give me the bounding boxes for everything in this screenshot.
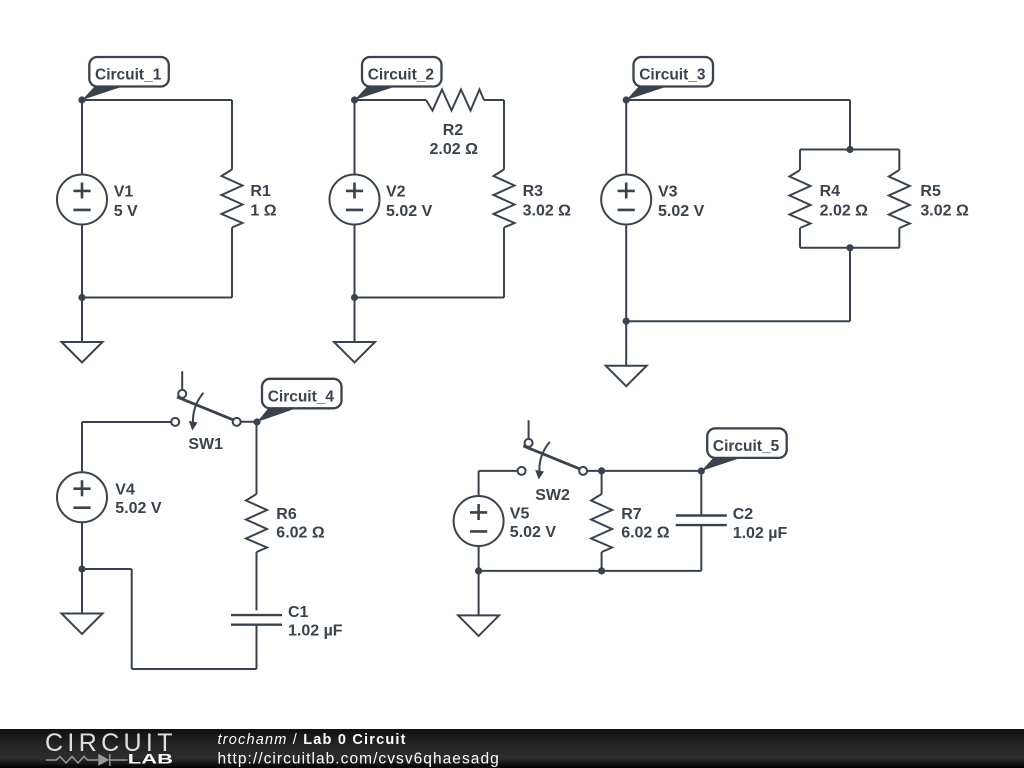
svg-text:V1: V1 bbox=[114, 184, 134, 201]
svg-text:5 V: 5 V bbox=[114, 203, 138, 220]
svg-text:R1: R1 bbox=[250, 183, 271, 200]
svg-text:R6: R6 bbox=[276, 506, 297, 523]
svg-text:3.02 Ω: 3.02 Ω bbox=[920, 203, 969, 220]
svg-text:Circuit_4: Circuit_4 bbox=[268, 388, 335, 405]
svg-text:R2: R2 bbox=[443, 122, 464, 139]
svg-text:Circuit_5: Circuit_5 bbox=[713, 438, 780, 455]
svg-text:2.02 Ω: 2.02 Ω bbox=[820, 203, 869, 220]
svg-text:trochanm / Lab 0 Circuit: trochanm / Lab 0 Circuit bbox=[218, 732, 407, 748]
svg-text:R5: R5 bbox=[920, 183, 941, 200]
svg-text:http://circuitlab.com/cvsv6qha: http://circuitlab.com/cvsv6qhaesadg bbox=[218, 751, 500, 768]
svg-text:R3: R3 bbox=[523, 183, 544, 200]
svg-text:R4: R4 bbox=[820, 183, 841, 200]
svg-text:6.02 Ω: 6.02 Ω bbox=[276, 525, 325, 542]
svg-text:V2: V2 bbox=[386, 184, 406, 201]
svg-text:5.02 V: 5.02 V bbox=[386, 203, 433, 220]
svg-text:1.02 µF: 1.02 µF bbox=[733, 525, 788, 542]
svg-text:6.02 Ω: 6.02 Ω bbox=[621, 525, 670, 542]
svg-text:Circuit_2: Circuit_2 bbox=[368, 67, 434, 84]
svg-text:SW2: SW2 bbox=[535, 487, 570, 504]
svg-text:Circuit_1: Circuit_1 bbox=[95, 67, 162, 84]
svg-text:1.02 µF: 1.02 µF bbox=[288, 623, 343, 640]
svg-text:Circuit_3: Circuit_3 bbox=[639, 67, 706, 84]
svg-text:V4: V4 bbox=[115, 482, 135, 499]
svg-text:V5: V5 bbox=[510, 505, 530, 522]
svg-text:LAB: LAB bbox=[128, 751, 174, 766]
svg-text:3.02 Ω: 3.02 Ω bbox=[523, 203, 572, 220]
svg-text:5.02 V: 5.02 V bbox=[658, 203, 705, 220]
svg-text:C1: C1 bbox=[288, 604, 309, 621]
svg-text:2.02 Ω: 2.02 Ω bbox=[429, 141, 478, 158]
svg-text:V3: V3 bbox=[658, 184, 678, 201]
svg-text:5.02 V: 5.02 V bbox=[510, 524, 557, 541]
svg-text:C2: C2 bbox=[733, 506, 754, 523]
svg-text:1 Ω: 1 Ω bbox=[250, 203, 276, 220]
svg-text:SW1: SW1 bbox=[188, 436, 223, 453]
svg-text:R7: R7 bbox=[621, 506, 642, 523]
svg-text:5.02 V: 5.02 V bbox=[115, 500, 162, 517]
